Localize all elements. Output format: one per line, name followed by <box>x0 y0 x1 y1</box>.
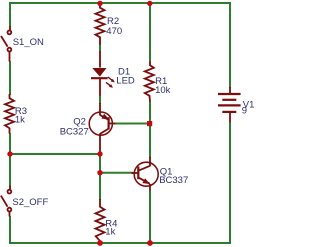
wire S2 to bottom rail <box>9 216 11 242</box>
svg-text:BC327: BC327 <box>60 126 89 137</box>
svg-text:1k: 1k <box>105 226 115 237</box>
resistor R3 <box>5 94 14 134</box>
node Q2 base / R1 column junction <box>147 121 152 126</box>
resistor R2 <box>96 3 105 45</box>
wire bottom rail <box>9 242 231 244</box>
wire Q1 emitter to bottom rail <box>149 190 151 243</box>
svg-text:1k: 1k <box>15 115 25 126</box>
wire battery column bottom <box>229 122 231 243</box>
transistor Q2 <box>89 103 115 152</box>
svg-text:LED: LED <box>116 76 135 87</box>
wire R2 to LED <box>99 43 101 52</box>
battery V1 <box>218 87 241 123</box>
wire battery column top <box>229 3 231 88</box>
node Q2 emitter / wire A junction <box>97 151 102 156</box>
wire R3 to S2 <box>9 133 11 187</box>
switch S2 <box>1 186 11 217</box>
wire C Q2 column to Q1 base <box>100 172 133 174</box>
svg-text:BC337: BC337 <box>159 175 188 186</box>
wire Q2 base to node <box>114 123 150 125</box>
svg-text:470: 470 <box>106 26 122 37</box>
LED arrow 2 <box>106 82 111 86</box>
LED arrow 1 <box>108 77 113 81</box>
node top R2 junction <box>97 1 102 6</box>
wire R1 to Q1 collector <box>149 101 151 158</box>
LED D1 <box>91 51 115 96</box>
node left rail / wire A junction <box>7 151 12 156</box>
svg-text:S2_OFF: S2_OFF <box>12 197 48 208</box>
node R4 bottom junction <box>97 240 103 246</box>
node wire C junction <box>97 170 102 175</box>
wire A left rail to Q2 column <box>10 153 100 155</box>
wire S1 to R3 <box>9 61 11 95</box>
wire left rail upper <box>9 3 11 27</box>
transistor Q1 <box>132 157 159 191</box>
svg-text:10k: 10k <box>155 85 171 96</box>
switch S1 <box>1 26 11 62</box>
node top R1 junction <box>147 1 152 6</box>
wire top to R1 <box>149 3 151 62</box>
svg-text:9: 9 <box>242 106 247 117</box>
resistor R4 <box>96 199 105 243</box>
wire LED to Q2 <box>99 95 101 104</box>
svg-text:S1_ON: S1_ON <box>13 37 44 48</box>
resistor R1 <box>145 62 154 102</box>
wire top rail <box>9 2 231 4</box>
wire Q2 emitter down to R4 <box>99 151 101 200</box>
node Q1 emitter bottom junction <box>147 240 153 246</box>
